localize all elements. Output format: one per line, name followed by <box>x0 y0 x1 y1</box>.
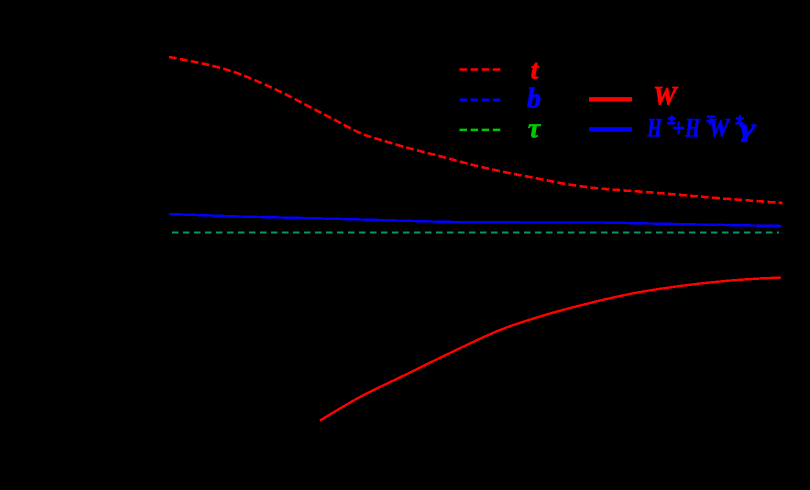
svg-text:+: + <box>672 114 685 143</box>
legend sample line tau (green dashed) <box>460 129 501 132</box>
svg-text:H: H <box>684 114 700 143</box>
legend sample line b (blue dashed) <box>460 99 501 102</box>
legend sample line H (blue thick solid) <box>589 127 632 131</box>
svg-text:W: W <box>709 114 731 143</box>
curve t (red dashed branching ratio) <box>169 57 783 203</box>
legend sample line W (red thick solid) <box>589 97 632 101</box>
svg-text:H: H <box>647 114 663 143</box>
curve W (red solid rising) <box>320 278 781 421</box>
svg-text:b: b <box>527 84 541 115</box>
legend sample line t (red dashed) <box>460 68 501 71</box>
legend label H+H-W gamma <box>647 114 757 143</box>
curve H+H-W gamma (blue solid) <box>169 214 782 226</box>
svg-text:W: W <box>653 81 679 111</box>
curve tau (green dashed horizontal) <box>172 232 779 234</box>
svg-text:γ: γ <box>739 114 756 143</box>
svg-text:τ: τ <box>528 113 541 143</box>
